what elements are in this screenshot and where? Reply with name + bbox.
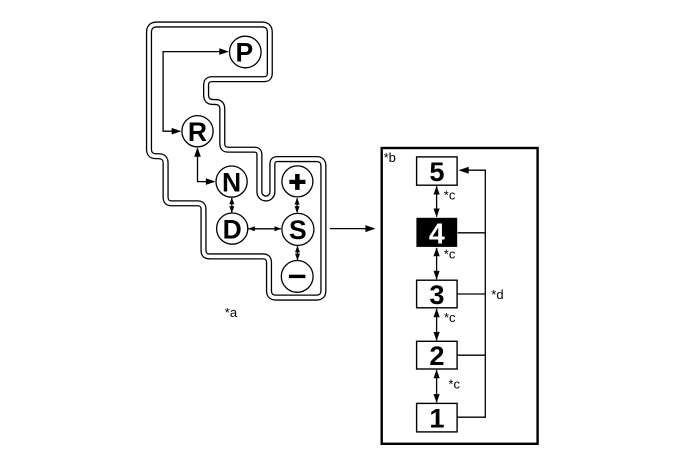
arrow N-D (double) xyxy=(231,198,233,212)
svg-text:5: 5 xyxy=(429,156,444,187)
gear box 1 xyxy=(417,403,458,432)
position circle N xyxy=(216,166,247,197)
arrow between gear boxes 3-2 (double) xyxy=(436,309,438,340)
svg-text:P: P xyxy=(236,38,254,68)
svg-text:N: N xyxy=(222,167,241,197)
arrow between gear boxes 4-3 (double) xyxy=(436,248,438,279)
svg-text:*c: *c xyxy=(444,310,456,325)
position circle plus xyxy=(282,166,313,197)
arrow line R to N xyxy=(198,149,215,182)
arrow S to indicator panel xyxy=(330,228,374,230)
arrow between gear boxes 2-1 (double) xyxy=(436,370,438,402)
position circle R xyxy=(182,116,213,147)
gear box 4 xyxy=(416,218,457,247)
svg-text:1: 1 xyxy=(429,403,444,434)
arrowhead up into R xyxy=(194,147,201,157)
arrow D-S (double) xyxy=(249,228,281,230)
arrow plus-S (double) xyxy=(296,198,298,212)
gear box 2 xyxy=(417,341,458,369)
gear box 5 xyxy=(417,157,458,185)
shift gate outline (inner white gap) xyxy=(149,25,323,298)
svg-text:S: S xyxy=(289,215,307,245)
arrow S-minus (double) xyxy=(297,246,299,260)
svg-text:*c: *c xyxy=(444,247,456,262)
shift gate outline (outer line) xyxy=(149,25,323,298)
svg-text:*a: *a xyxy=(225,305,238,320)
bracket stub from box 2 xyxy=(458,354,486,356)
svg-text:D: D xyxy=(223,214,242,244)
arrowhead into R xyxy=(172,128,182,135)
position circle minus xyxy=(281,261,313,293)
svg-text:*d: *d xyxy=(491,287,503,302)
arrowhead into P xyxy=(219,48,229,55)
bracket stub from box 4 xyxy=(458,232,486,234)
indicator panel box xyxy=(382,148,538,444)
gear box 3 xyxy=(417,280,458,308)
svg-text:3: 3 xyxy=(429,279,444,310)
svg-text:*c: *c xyxy=(448,377,460,392)
svg-text:4: 4 xyxy=(429,218,445,250)
arrow between gear boxes 5-4 (double) xyxy=(436,186,438,217)
position circle P xyxy=(230,36,262,68)
svg-text:*c: *c xyxy=(444,187,456,202)
position circle D xyxy=(217,213,248,244)
arrowhead right into N xyxy=(206,178,216,185)
bracket line with arrow into box 5 xyxy=(458,170,486,417)
position circle S xyxy=(282,213,314,245)
bracket stub from box 3 xyxy=(458,293,486,295)
svg-text:*b: *b xyxy=(384,150,396,165)
svg-text:R: R xyxy=(188,117,207,147)
svg-text:2: 2 xyxy=(429,340,444,371)
arrow line to P and R xyxy=(163,52,227,132)
